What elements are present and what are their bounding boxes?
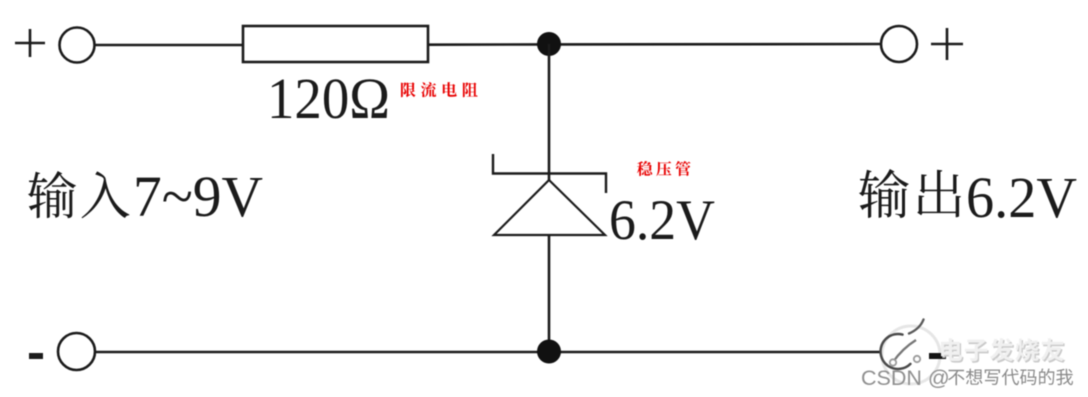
wire: input terminal to resistor: [95, 44, 244, 47]
svg-text:7~9V: 7~9V: [133, 164, 263, 229]
svg-text:6.2V: 6.2V: [609, 189, 715, 252]
wire: node A to output terminal: [549, 43, 881, 46]
plus terminal label top-left: [15, 29, 45, 57]
wire: node A down to zener cathode: [548, 44, 551, 181]
watermark terminal dark arc bottom-right: [881, 334, 911, 369]
watermark logo light circle: [882, 326, 940, 384]
wire: bottom rail, input terminal to node B: [96, 351, 550, 354]
resistor R 120ohm body: [243, 26, 428, 62]
wire: resistor to node A: [428, 43, 549, 46]
zener diode anode triangle: [494, 180, 605, 235]
resistor label (red): xian liu dian zu: [401, 82, 478, 97]
input label: shu ru 7~9V: [28, 171, 129, 218]
svg-text:CSDN @: CSDN @: [861, 366, 950, 390]
input + terminal circle: [60, 28, 95, 63]
plus label top-right: [931, 28, 963, 60]
output label: shu chu 6.2V: [859, 169, 961, 218]
svg-text:6.2V: 6.2V: [966, 165, 1077, 230]
node B junction dot: [537, 340, 561, 364]
svg-text:120Ω: 120Ω: [267, 66, 390, 131]
watermark text CSDN author (CJK): [948, 369, 1073, 386]
watermark logo wire stub: [929, 353, 946, 359]
node A junction dot: [537, 32, 561, 56]
watermark logo curl tail: [909, 320, 924, 334]
wire: bottom rail, node B to output terminal: [549, 351, 880, 354]
minus label bottom-left: [29, 353, 43, 359]
output - terminal circle bottom-left: [58, 333, 95, 370]
zener label (red): wen ya guan: [637, 161, 691, 176]
output + terminal circle: [881, 26, 917, 62]
wire: zener anode down to node B: [548, 235, 551, 352]
watermark text elecfans (emboss): [941, 338, 1065, 363]
watermark logo pad circles: [890, 356, 920, 366]
watermark logo iron swoosh: [893, 340, 916, 362]
zener diode cathode bar with hooks: [493, 154, 606, 193]
